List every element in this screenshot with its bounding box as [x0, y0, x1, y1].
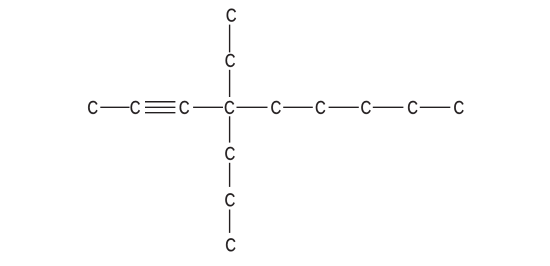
triple bond C2-C3 upper line	[145, 101, 175, 103]
vertical bond C4-B1 lower branch	[229, 116, 231, 142]
carbon atom C2	[131, 101, 140, 114]
vertical bond B1-B2 lower branch	[229, 163, 231, 187]
carbon atom C9	[454, 101, 463, 114]
carbon atom C1	[88, 101, 97, 114]
carbon atom B1 (lower branch)	[225, 147, 234, 160]
single bond C1-C2	[100, 106, 129, 108]
vertical bond B2-B3 lower branch	[229, 210, 231, 233]
single bond C6-C7	[329, 106, 359, 108]
single bond C5-C6	[283, 106, 313, 108]
carbon atom T1 (top of upper branch)	[227, 9, 236, 22]
single bond C8-C9	[420, 106, 451, 108]
triple bond C2-C3 lower line	[145, 112, 175, 114]
carbon atom T2 (upper branch)	[226, 54, 235, 67]
triple bond C2-C3 middle line	[145, 106, 175, 108]
carbon atom C7	[361, 101, 370, 114]
carbon atom C8	[408, 101, 417, 114]
carbon atom C4 (central branch point)	[225, 101, 234, 114]
single bond C4-C5	[237, 106, 268, 108]
single bond C3-C4	[193, 106, 223, 108]
single bond C7-C8	[373, 106, 404, 108]
carbon atom B2 (lower branch)	[225, 193, 234, 206]
vertical bond T1-T2 upper branch	[229, 25, 231, 53]
carbon atom B3 (bottom of lower branch)	[226, 238, 235, 251]
carbon atom C5	[271, 101, 280, 114]
carbon atom C6	[316, 101, 325, 114]
vertical bond T2-C4 upper branch	[229, 70, 231, 97]
carbon atom C3	[180, 101, 189, 114]
